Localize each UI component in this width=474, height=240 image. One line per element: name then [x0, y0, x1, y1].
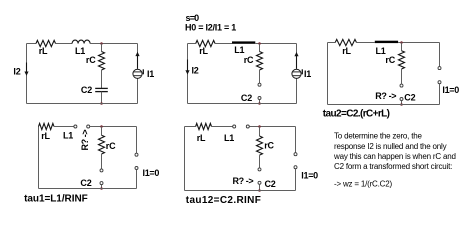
wire: circuit A right vertical — [137, 44, 139, 104]
formula wz = 1/(rC.C2) — [334, 179, 392, 188]
wire: circuit A top-left segment — [27, 43, 37, 45]
wire: circuit B left vertical — [187, 44, 189, 104]
svg-text:To determine the zero, the: To determine the zero, the — [334, 132, 422, 141]
resistor rL (B) — [196, 40, 215, 46]
node: junction bottom of branch (C) — [400, 103, 403, 106]
wire: circuit A bottom — [27, 103, 138, 105]
wire: rC to C2 (A) — [101, 70, 103, 88]
label tau1=L1/RINF — [24, 194, 88, 205]
inductor L1 shorted bar (B) — [232, 41, 255, 43]
resistor rC (E) — [257, 136, 263, 155]
inductor L1 (A) — [72, 40, 90, 43]
resistor rL (C) — [335, 39, 356, 45]
wire: circuit E left vertical — [184, 127, 186, 191]
label rC (D) — [106, 141, 116, 151]
label R? -> pointing at C2 port (E) — [233, 176, 254, 186]
wire: lower stub to bottom (C) — [401, 101, 403, 105]
wire: circuit D top between rL and L1 port — [54, 126, 74, 128]
node: junction top of rC branch (E) — [258, 125, 261, 128]
svg-text:I1=0: I1=0 — [442, 85, 459, 95]
arrow: current I2 (B) — [185, 60, 189, 75]
label R? -> pointing at C2 port (C) — [375, 91, 396, 101]
label I2 (B) — [192, 66, 199, 76]
svg-text:C2 form a transformed short ci: C2 form a transformed short circuit: — [334, 162, 452, 171]
wire: circuit C top between rL and L1 bar — [357, 42, 375, 44]
wire: circuit B right vertical — [296, 44, 298, 104]
label L1 (A) — [75, 46, 85, 56]
svg-text:I2: I2 — [192, 66, 199, 76]
terminal: L1 port left (D) — [74, 125, 77, 128]
label C2 (C) — [404, 92, 415, 102]
svg-text:R? ->: R? -> — [80, 130, 90, 151]
label R? rotated pointing up at L1 port (D) — [80, 130, 90, 151]
terminal: C2 port upper (C) — [400, 84, 403, 87]
wire: circuit D left vertical — [38, 127, 40, 189]
wire: circuit C right vertical upper — [439, 43, 441, 67]
wire: circuit B bottom — [188, 103, 297, 105]
wire: circuit B top from bar to right corner — [255, 43, 296, 45]
wire: rC down to open terminal (B) — [259, 70, 261, 83]
wire: rC down to open terminal (C) — [401, 69, 403, 84]
terminal: I1 removed upper (D) — [135, 153, 138, 156]
wire: rC down to open terminal (D) — [101, 154, 103, 169]
label L1 (D) — [63, 131, 73, 141]
label rL (A) — [39, 46, 48, 56]
svg-text:rC: rC — [264, 141, 274, 151]
svg-text:I1: I1 — [304, 69, 311, 79]
resistor rL (A) — [36, 40, 56, 46]
svg-text:L1: L1 — [224, 133, 234, 143]
label H0 = I2/I1 = 1 — [185, 22, 236, 32]
wire: rC branch upper stub (C) — [401, 43, 403, 51]
wire: circuit A top from L1 to right corner — [90, 43, 137, 45]
note: zero explanation paragraph — [333, 132, 456, 171]
wire: circuit C top-left segment — [328, 42, 336, 44]
inductor L1 shorted bar (C) — [375, 41, 398, 43]
wire: lower stub to bottom (E) — [259, 185, 261, 191]
terminal: I1 removed lower (C) — [438, 81, 441, 84]
svg-text:L1: L1 — [63, 131, 73, 141]
svg-text:C2: C2 — [241, 93, 252, 103]
terminal: C2 port lower (D) — [100, 182, 103, 185]
wire: rC branch upper stub (D) — [101, 127, 103, 136]
label I2 (A) — [13, 67, 20, 77]
svg-text:rL: rL — [41, 131, 50, 141]
svg-text:R? ->: R? -> — [233, 176, 254, 186]
node: junction top of rC branch (D) — [100, 125, 103, 128]
label C2 (A) — [81, 85, 92, 95]
terminal: I1 removed upper (E) — [294, 153, 297, 156]
resistor rC (A) — [99, 52, 105, 70]
svg-text:rC: rC — [244, 55, 254, 65]
node: junction bottom of branch (D) — [100, 187, 103, 190]
node: junction bottom of branch (E) — [258, 189, 261, 192]
svg-text:I1: I1 — [147, 69, 154, 79]
svg-text:C2: C2 — [80, 178, 91, 188]
label rC (E) — [264, 141, 274, 151]
svg-text:L1: L1 — [75, 46, 85, 56]
svg-text:rL: rL — [342, 46, 351, 56]
node: junction top of rC branch (A) — [100, 42, 103, 45]
resistor rL (D) — [39, 123, 54, 129]
svg-text:I1=0: I1=0 — [301, 171, 318, 181]
terminal: L1 port left (E) — [233, 125, 236, 128]
terminal: I1 removed lower (E) — [294, 166, 297, 169]
terminal: L1 port right (D) — [87, 125, 90, 128]
terminal: I1 removed lower (D) — [135, 167, 138, 170]
svg-text:response I2 is nulled and the: response I2 is nulled and the only — [334, 142, 447, 151]
label I1=0 (E) — [301, 171, 318, 181]
svg-text:C2: C2 — [81, 85, 92, 95]
svg-text:rL: rL — [199, 46, 208, 56]
svg-text:R? ->: R? -> — [375, 91, 396, 101]
terminal: C2 removed lower (B) — [258, 97, 261, 100]
wire: lower stub to bottom (B) — [259, 100, 261, 104]
svg-text:L1: L1 — [234, 45, 244, 55]
wire: circuit E right vertical lower — [295, 169, 297, 191]
resistor rL (E) — [196, 123, 212, 129]
wire: C2 to bottom (A) — [101, 92, 103, 104]
wire: circuit A top between rL and L1 — [56, 43, 73, 45]
svg-text:tau12=C2.RINF: tau12=C2.RINF — [186, 195, 261, 206]
wire: circuit E bottom — [185, 190, 296, 192]
wire: circuit B top-left segment — [188, 43, 196, 45]
wire: circuit C bottom — [328, 104, 440, 106]
svg-text:rC: rC — [106, 141, 116, 151]
wire: circuit E top from L1 port to right corner — [250, 126, 296, 128]
wire: circuit C top from bar to right corner — [398, 42, 439, 44]
node: junction top of rC branch (C) — [400, 41, 403, 44]
svg-text:L1: L1 — [375, 46, 385, 56]
label rL (E) — [197, 133, 206, 143]
label s=0 — [186, 13, 200, 23]
wire: circuit E right vertical upper — [295, 127, 297, 153]
svg-text:-> wz = 1/(rC.C2): -> wz = 1/(rC.C2) — [334, 179, 392, 188]
svg-text:rC: rC — [86, 55, 96, 65]
wire: circuit C left vertical — [327, 43, 329, 105]
wire: circuit D right vertical upper — [136, 127, 138, 154]
label rL (D) — [41, 131, 50, 141]
wire: circuit D bottom — [39, 188, 137, 190]
terminal: C2 port lower (E) — [258, 181, 261, 184]
label rL (C) — [342, 46, 351, 56]
svg-text:tau2=C2.(rC+rL): tau2=C2.(rC+rL) — [323, 108, 390, 119]
current source I1 (B) — [292, 52, 302, 78]
svg-text:way this can happen is when rC: way this can happen is when rC and — [333, 152, 456, 161]
label rC (C) — [385, 55, 395, 65]
terminal: C2 port lower (C) — [400, 98, 403, 101]
terminal: C2 removed upper (B) — [258, 83, 261, 86]
label I1=0 (C) — [442, 85, 459, 95]
node: junction top of rC branch (B) — [258, 42, 261, 45]
node: junction bottom of branch (B) — [258, 102, 261, 105]
svg-text:tau1=L1/RINF: tau1=L1/RINF — [24, 194, 88, 205]
terminal: C2 port upper (E) — [258, 168, 261, 171]
wire: circuit E top-left segment — [185, 126, 196, 128]
wire: circuit E top between rL and L1 port — [212, 126, 233, 128]
label I1=0 (D) — [143, 168, 160, 178]
label rC (A) — [86, 55, 96, 65]
terminal: L1 port right (E) — [246, 125, 249, 128]
svg-text:C2: C2 — [404, 92, 415, 102]
svg-text:C2: C2 — [265, 179, 276, 189]
label I1 (B) — [304, 69, 311, 79]
label rL (B) — [199, 46, 208, 56]
wire: circuit B top between rL and L1 bar — [215, 43, 232, 45]
label C2 (D) — [80, 178, 91, 188]
svg-text:rC: rC — [385, 55, 395, 65]
wire: circuit D right vertical lower — [136, 170, 138, 189]
resistor rC (C) — [399, 51, 405, 69]
svg-text:rL: rL — [39, 46, 48, 56]
label I1 (A) — [147, 69, 154, 79]
capacitor C2 (A) — [95, 88, 108, 91]
terminal: C2 port upper (D) — [100, 169, 103, 172]
label rC (B) — [244, 55, 254, 65]
label L1 (B) — [234, 45, 244, 55]
wire: rC branch upper stub (E) — [259, 127, 261, 137]
current source I1 (A) — [133, 52, 143, 79]
wire: rC branch upper stub (A) — [101, 44, 103, 52]
svg-text:rL: rL — [197, 133, 206, 143]
svg-text:I2: I2 — [13, 67, 20, 77]
label tau2=C2.(rC+rL) — [323, 108, 390, 119]
wire: circuit C right vertical lower — [439, 84, 441, 105]
label tau12=C2.RINF — [186, 195, 261, 206]
wire: lower stub to bottom (D) — [101, 185, 103, 189]
label C2 (E) — [265, 179, 276, 189]
arrow: output current I2 (A) — [24, 63, 28, 76]
svg-text:H0 = I2/I1 = 1: H0 = I2/I1 = 1 — [185, 22, 236, 32]
wire: circuit A left vertical — [26, 44, 28, 104]
svg-text:I1=0: I1=0 — [143, 168, 160, 178]
label L1 (E) — [224, 133, 234, 143]
resistor rC (B) — [257, 52, 263, 70]
label C2 (B) — [241, 93, 252, 103]
wire: rC branch upper stub (B) — [259, 44, 261, 52]
terminal: I1 removed upper (C) — [438, 67, 441, 70]
resistor rC (D) — [99, 135, 105, 154]
wire: circuit D top from L1 port to right corner — [90, 126, 137, 128]
node: junction bottom of branch (A) — [100, 102, 103, 105]
wire: rC down to open terminal (E) — [259, 155, 261, 168]
label L1 (C) — [375, 46, 385, 56]
